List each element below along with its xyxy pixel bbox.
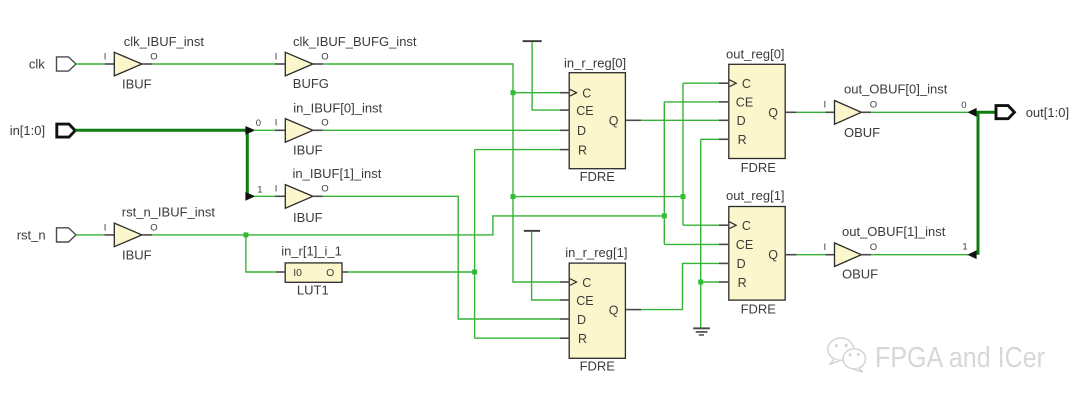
pin stub I of BUFG xyxy=(275,63,285,65)
flipflop out_reg[1] box xyxy=(729,207,785,301)
wire clock to out_reg[0] C xyxy=(683,82,719,84)
pin stub Q of out_reg[1] xyxy=(785,254,796,256)
pin stub D of in_r_reg[1] xyxy=(560,318,570,320)
svg-text:O: O xyxy=(870,100,877,111)
svg-text:in_r_reg[1]: in_r_reg[1] xyxy=(565,245,627,260)
wire clock branch to out_regs xyxy=(513,196,683,198)
svg-text:I: I xyxy=(104,222,107,233)
junction clock at out_reg split xyxy=(681,194,686,199)
junction rst_n CE split xyxy=(662,213,667,218)
pin stub C of out_reg[0] xyxy=(719,82,729,84)
svg-text:FPGA and ICer: FPGA and ICer xyxy=(875,342,1045,374)
svg-text:O: O xyxy=(150,51,157,62)
pin stub O of BUFG xyxy=(313,63,323,65)
svg-text:I: I xyxy=(104,51,107,62)
svg-text:in_r_reg[0]: in_r_reg[0] xyxy=(564,56,626,71)
pin stub I of out_OBUF[0] xyxy=(825,111,834,113)
svg-text:I: I xyxy=(824,242,827,253)
svg-text:I: I xyxy=(275,51,278,62)
svg-text:in_IBUF[1]_inst: in_IBUF[1]_inst xyxy=(293,166,382,181)
buffer U clk_IBUF_inst xyxy=(114,52,142,76)
svg-text:I: I xyxy=(824,100,827,111)
pin stub R of out_reg[0] xyxy=(719,138,729,140)
wire clk port to IBUF xyxy=(76,63,105,65)
pin stub O of rst_n IBUF xyxy=(142,234,153,236)
pin stub Q of out_reg[0] xyxy=(785,111,796,113)
pin stub I of in_IBUF[1] xyxy=(275,195,285,197)
pin stub D of out_reg[1] xyxy=(719,262,729,264)
buffer U in_IBUF[0]_inst xyxy=(285,119,313,143)
svg-text:clk: clk xyxy=(29,57,45,72)
svg-text:O: O xyxy=(321,184,328,195)
junction clock branch out_regs xyxy=(511,194,516,199)
pin stub I of out_OBUF[1] xyxy=(825,254,834,256)
buffer U out_OBUF[0]_inst xyxy=(835,101,862,125)
svg-text:R: R xyxy=(738,276,747,290)
pin stub O of clk IBUF xyxy=(142,63,153,65)
svg-text:Q: Q xyxy=(609,114,619,128)
wire in[0] tap to IBUF xyxy=(254,129,275,131)
wire vcc1 to in_r_reg[0] CE xyxy=(532,42,560,110)
buffer U out_OBUF[1]_inst xyxy=(835,243,862,267)
wire reset vertical xyxy=(474,150,476,339)
wire clock to out_reg[1] C xyxy=(683,224,719,226)
watermark logo wechat bubbles xyxy=(828,338,866,372)
wire clock vertical to out_reg C pins xyxy=(682,83,684,225)
svg-text:IBUF: IBUF xyxy=(293,210,323,225)
ground symbol xyxy=(693,327,710,335)
svg-text:IBUF: IBUF xyxy=(293,142,323,157)
svg-text:O: O xyxy=(326,267,334,279)
junction rst_n at LUT1 branch xyxy=(243,232,248,237)
pin stub C of in_r_reg[0] xyxy=(560,92,570,94)
wire out_OBUF[1] to bus xyxy=(871,254,968,256)
svg-text:0: 0 xyxy=(256,118,261,129)
svg-text:O: O xyxy=(150,222,157,233)
svg-text:CE: CE xyxy=(576,104,593,118)
wire in[1] tap to IBUF xyxy=(254,195,275,197)
svg-text:clk_IBUF_BUFG_inst: clk_IBUF_BUFG_inst xyxy=(293,34,417,49)
buffer U clk_IBUF_BUFG_inst xyxy=(285,52,313,76)
svg-text:in_IBUF[0]_inst: in_IBUF[0]_inst xyxy=(293,100,382,115)
bus out[1:0] xyxy=(978,112,996,254)
junction reset net xyxy=(472,270,477,275)
bus in[1:0] xyxy=(76,130,248,196)
wire in_r_reg[0] Q to out_reg[0] D xyxy=(641,119,719,121)
svg-text:O: O xyxy=(321,118,328,129)
wire in_r_reg[1] Q to out_reg[1] D xyxy=(641,263,719,309)
svg-text:out_reg[1]: out_reg[1] xyxy=(726,188,785,203)
svg-text:rst_n_IBUF_inst: rst_n_IBUF_inst xyxy=(122,205,216,220)
svg-text:R: R xyxy=(738,133,747,147)
pin stub Q of in_r_reg[1] xyxy=(625,309,641,311)
pin stub O of out_OBUF[0] xyxy=(861,111,871,113)
port in[1:0] symbol xyxy=(57,124,75,137)
svg-text:C: C xyxy=(742,219,751,233)
svg-text:out_OBUF[1]_inst: out_OBUF[1]_inst xyxy=(842,224,946,239)
port clk symbol xyxy=(57,57,77,71)
wire in_IBUF[0] to in_r_reg[0] D xyxy=(323,129,560,131)
pin stub R of in_r_reg[0] xyxy=(560,149,570,151)
wire reset to in_r_reg[0] R xyxy=(475,149,560,151)
wire clock net trunk xyxy=(323,64,560,282)
bus tap 0 arrow xyxy=(245,126,255,135)
wire rst_n port to IBUF xyxy=(76,234,104,236)
wire reset net LUT1 out xyxy=(348,271,474,273)
svg-text:1: 1 xyxy=(962,242,967,253)
pin stub R of out_reg[1] xyxy=(719,281,729,283)
pin stub O of out_OBUF[1] xyxy=(861,254,871,256)
svg-text:out_reg[0]: out_reg[0] xyxy=(726,46,785,61)
svg-text:O: O xyxy=(321,51,328,62)
svg-text:I: I xyxy=(275,184,278,195)
pin stub I of rst_n IBUF xyxy=(104,234,114,236)
svg-text:FDRE: FDRE xyxy=(741,302,777,317)
svg-text:Q: Q xyxy=(609,303,619,317)
pin stub O of LUT1 xyxy=(342,271,348,273)
svg-text:CE: CE xyxy=(576,294,593,308)
buffer U in_IBUF[1]_inst xyxy=(285,185,313,209)
wire in_IBUF[1] to in_r_reg[1] D xyxy=(323,196,560,319)
pin stub O of in_IBUF[1] xyxy=(313,195,323,197)
svg-text:OBUF: OBUF xyxy=(842,266,878,281)
pin stub CE of in_r_reg[1] xyxy=(560,299,570,301)
wire ground to out_reg[1] R xyxy=(701,281,719,283)
pin stub D of in_r_reg[0] xyxy=(560,129,570,131)
svg-text:FDRE: FDRE xyxy=(580,169,616,184)
pin stub I0 of LUT1 xyxy=(276,271,285,273)
svg-text:FDRE: FDRE xyxy=(580,359,616,374)
wire out_reg[0] Q to OBUF xyxy=(797,111,826,113)
svg-text:R: R xyxy=(578,332,587,346)
bus tap 1 arrow at out xyxy=(967,250,976,259)
bus tap 0 arrow at out xyxy=(967,108,976,117)
svg-text:FDRE: FDRE xyxy=(741,160,777,175)
pin stub CE of out_reg[0] xyxy=(719,101,729,103)
svg-text:D: D xyxy=(577,124,586,138)
svg-text:rst_n: rst_n xyxy=(17,228,46,243)
wire rst_n branch to LUT1 xyxy=(246,235,276,272)
svg-text:CE: CE xyxy=(736,238,753,252)
svg-text:D: D xyxy=(737,114,746,128)
junction clock at in_r_reg[0] C xyxy=(511,90,516,95)
pin stub C of out_reg[1] xyxy=(719,224,729,226)
port out[1:0] symbol xyxy=(996,106,1014,119)
lut LUT1 in_r[1]_i_1 box xyxy=(285,263,342,282)
wire rst_n to out_reg[1] CE xyxy=(664,243,719,245)
clock arrow of in_r_reg[1] xyxy=(570,279,577,286)
port rst_n symbol xyxy=(57,228,77,242)
flipflop in_r_reg[0] box xyxy=(569,73,625,169)
svg-text:in_r[1]_i_1: in_r[1]_i_1 xyxy=(281,244,342,259)
buffer U rst_n_IBUF_inst xyxy=(114,223,142,247)
wire rst_n to out_reg[0] CE xyxy=(664,101,719,103)
ground net vertical xyxy=(700,139,702,327)
pin stub CE of out_reg[1] xyxy=(719,243,729,245)
svg-text:Q: Q xyxy=(768,106,778,120)
clock arrow of out_reg[0] xyxy=(729,80,736,87)
bus tap 1 arrow xyxy=(245,192,255,201)
svg-text:out_OBUF[0]_inst: out_OBUF[0]_inst xyxy=(844,82,948,97)
wire vcc2 to in_r_reg[1] CE xyxy=(532,232,560,300)
svg-text:D: D xyxy=(737,257,746,271)
pin stub CE of in_r_reg[0] xyxy=(560,109,570,111)
wire rst_n vertical at out_reg CE xyxy=(663,102,665,245)
svg-text:IBUF: IBUF xyxy=(122,248,152,263)
svg-text:CE: CE xyxy=(736,96,753,110)
svg-text:C: C xyxy=(582,276,591,290)
vcc T symbol 1 xyxy=(523,40,542,42)
wire clock branch to in_r_reg[0] C xyxy=(513,92,560,94)
vcc T symbol 2 xyxy=(524,230,540,232)
pin stub I of clk IBUF xyxy=(105,63,115,65)
svg-text:I: I xyxy=(275,118,278,129)
svg-text:D: D xyxy=(577,313,586,327)
svg-text:LUT1: LUT1 xyxy=(297,282,329,297)
svg-text:out[1:0]: out[1:0] xyxy=(1026,105,1069,120)
flipflop in_r_reg[1] box xyxy=(569,263,625,358)
clock arrow of out_reg[1] xyxy=(729,222,736,229)
svg-text:C: C xyxy=(742,77,751,91)
svg-text:clk_IBUF_inst: clk_IBUF_inst xyxy=(124,34,205,49)
svg-text:C: C xyxy=(582,87,591,101)
pin stub D of out_reg[0] xyxy=(719,119,729,121)
svg-text:1: 1 xyxy=(257,185,262,196)
pin stub I of in_IBUF[0] xyxy=(275,129,285,131)
svg-text:OBUF: OBUF xyxy=(844,125,880,140)
wire rst_n net to CE of out_regs xyxy=(152,216,664,235)
clock arrow of in_r_reg[0] xyxy=(570,89,577,96)
pin stub C of in_r_reg[1] xyxy=(560,281,570,283)
svg-text:O: O xyxy=(870,242,877,253)
wire clk_IBUF to BUFG xyxy=(152,63,275,65)
wire out_reg[1] Q to OBUF xyxy=(797,254,826,256)
svg-text:BUFG: BUFG xyxy=(293,76,329,91)
flipflop out_reg[0] box xyxy=(729,64,785,158)
wire ground to out_reg[0] R xyxy=(701,138,719,140)
svg-text:in[1:0]: in[1:0] xyxy=(10,123,45,138)
pin stub Q of in_r_reg[0] xyxy=(625,119,641,121)
svg-text:I0: I0 xyxy=(293,267,302,279)
wire out_OBUF[0] to bus xyxy=(871,111,968,113)
svg-text:Q: Q xyxy=(768,248,778,262)
junction ground at out_reg[1] R xyxy=(698,280,703,285)
wire reset to in_r_reg[1] R xyxy=(475,337,560,339)
pin stub R of in_r_reg[1] xyxy=(560,337,570,339)
svg-text:IBUF: IBUF xyxy=(122,77,152,92)
svg-text:0: 0 xyxy=(961,100,966,111)
svg-text:R: R xyxy=(578,143,587,157)
pin stub O of in_IBUF[0] xyxy=(313,129,323,131)
